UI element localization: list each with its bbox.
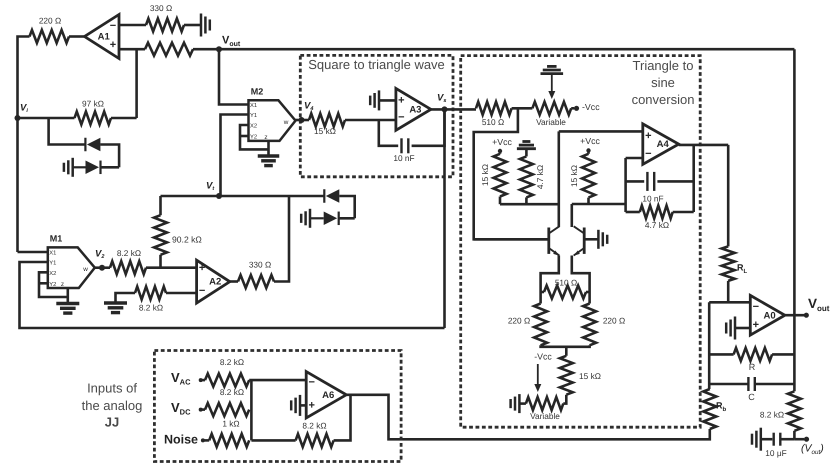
wire Vt down branch [159,196,162,215]
label Noise [164,432,198,446]
wire cap tap [626,180,645,183]
label +Vcc 1 [492,137,512,147]
label Inputs of line1 [87,380,137,395]
wire 330ohm to ground [184,24,200,27]
label 15kohm R7 [480,164,490,186]
svg-text:15 kΩ: 15 kΩ [480,164,490,186]
wire R22 to A2 - [166,292,197,295]
resistor R7 15kohm vertical [494,154,507,197]
wire Rb bottom to A6 output run [346,395,710,440]
label Vout final [808,296,830,313]
svg-text:z: z [264,134,267,141]
wire A1 noninverting input to R3 [119,48,145,51]
wire Vi to 97k [18,117,75,120]
svg-text:−: − [199,285,205,297]
label 4.7kohm R8 [535,165,545,189]
resistor R3 (Vout to A1+) [145,43,193,56]
label 8.2kohm R22 [139,303,163,313]
label Vout [222,34,241,47]
svg-text:JJ: JJ [105,414,119,429]
svg-text:conversion: conversion [632,92,695,107]
multiplier M2 [249,100,296,141]
label 15kohm [314,126,336,136]
label 10nF [393,153,414,163]
svg-text:z: z [61,281,64,288]
wire feedback right vertical [692,145,695,212]
pin X2 of M1 [49,270,56,277]
label VDC [171,400,191,417]
title Square to triangle wave [308,57,445,72]
wire Vout down to M2 X1 [219,49,249,104]
ground at A6 + input [291,395,300,416]
resistor R13 15kohm vertical [560,356,573,395]
label M1 [50,233,63,243]
terminal (Vout) [804,437,809,442]
resistor RL [722,246,735,281]
resistor R11 220ohm left [534,304,547,346]
wire A1 inverting input to 330ohm [119,24,146,27]
svg-text:510 Ω: 510 Ω [555,278,577,288]
wire A0 output [785,314,804,317]
svg-text:8.2 kΩ: 8.2 kΩ [302,421,326,431]
svg-text:1 kΩ: 1 kΩ [222,418,239,428]
svg-text:A0: A0 [764,310,776,321]
wire D3 to corner [339,196,354,218]
wire R19 to output [334,395,351,441]
svg-text:Y1: Y1 [49,260,56,266]
transistor Q1 [549,226,560,255]
wire bridge right [586,291,590,294]
wire ground to D2 [73,166,86,168]
svg-text:Square to triangle wave: Square to triangle wave [308,57,445,72]
svg-text:+: + [753,319,759,331]
wire Q1 collector up [557,131,560,227]
resistor R21 90.2kohm vertical [154,215,167,255]
wire R8 to bus [525,197,528,204]
pin Y1 of M1 [49,260,56,266]
label RL [737,262,748,274]
wire bottom node to 10uF [781,438,794,441]
resistor R19 8.2kohm feedback [296,434,334,447]
svg-text:330 Ω: 330 Ω [249,260,271,270]
wire R20 to A2 + [146,266,197,269]
pin X2 of M2 [250,123,257,130]
svg-text:15 kΩ: 15 kΩ [314,126,336,136]
svg-text:8.2 kΩ: 8.2 kΩ [117,248,141,258]
wire feedback bottom to 4.7k [626,211,640,214]
svg-text:sine: sine [651,75,675,90]
ground at A1 inverting input [201,14,210,37]
wire M1 z to ground [67,288,70,303]
op-amp A0 [750,295,785,335]
label 10uF [765,448,786,458]
wire R9 to collector row [587,198,590,204]
label -Vcc [582,102,600,112]
diode D1 [85,138,100,152]
inverted ground above 4.7k [517,142,536,149]
svg-text:w: w [82,266,88,273]
wire bus top to A6 - [249,379,306,382]
svg-text:R: R [749,362,756,372]
node V4 [299,117,305,123]
terminal -Vcc [574,106,579,111]
label 15kohm R13 [579,371,601,381]
svg-text:−: − [753,301,759,313]
svg-text:97 kΩ: 97 kΩ [82,99,104,109]
svg-text:15 kΩ: 15 kΩ [579,371,601,381]
op-amp A6 [306,372,346,418]
wire D1 to corner [100,145,119,168]
label VAC [171,370,191,387]
node Vt [216,193,222,199]
pin X1 of M2 [250,103,257,109]
resistor R16 8.2kohm [205,374,249,387]
terminal +Vcc 2 [586,148,590,152]
label C [748,392,755,402]
wire VDC to R17 [201,408,205,411]
node Vs (triangle out) [442,106,448,112]
svg-text:Triangle to: Triangle to [633,58,694,73]
svg-text:Noise: Noise [164,432,198,446]
wire C row left [709,383,748,386]
wire cap to output [412,109,445,145]
svg-text:+: + [110,39,116,51]
wire 10uF to ground [762,438,773,441]
label 8.2kohm R20 [117,248,141,258]
svg-text:+: + [398,94,404,106]
label 330ohm [150,3,172,13]
resistor R14 4.7kohm [640,206,673,219]
svg-text:8.2 kΩ: 8.2 kΩ [760,410,784,420]
svg-text:Y2: Y2 [49,281,56,288]
dashed box JJ inputs [154,351,401,462]
svg-text:8.2 kΩ: 8.2 kΩ [139,303,163,313]
wire A2 output [230,280,238,283]
op-amp A2 [197,260,230,303]
svg-text:w: w [283,119,289,126]
svg-text:4.7 kΩ: 4.7 kΩ [645,220,669,230]
node Vout (square wave) [216,46,222,52]
wire bridge bottom [541,345,590,347]
ground at 10uF [752,428,761,451]
wire A0 node left vertical [708,302,711,389]
label Variable P1 [536,117,566,127]
label 8.2kohm R17 [220,387,244,397]
resistor R feedback [734,348,773,361]
svg-text:−: − [308,376,314,388]
transistor Q2 [573,226,584,255]
title line2 [651,75,675,90]
wire A4 feedback left vertical [624,158,627,212]
node Vi [15,115,21,121]
pin z of M1 [61,281,64,288]
svg-text:+: + [199,262,205,274]
svg-text:M1: M1 [50,233,63,243]
terminal VDC [199,408,203,412]
resistor R9 15kohm vertical [582,154,595,198]
wire R7 to bus [499,197,502,205]
label 510ohm [482,117,504,127]
wire bus bottom to feedback resistor [251,439,295,442]
wire Q2 collector up [570,204,573,227]
diode D3 [324,189,339,203]
svg-text:M2: M2 [251,86,264,96]
wire +Vcc2 to R9 [587,151,590,154]
svg-text:A4: A4 [657,139,670,150]
svg-text:+: + [308,399,314,411]
label Vt [206,181,215,193]
wire R12 top [588,292,591,304]
svg-text:C: C [748,392,755,402]
wire Vout top rail to right edge [219,48,794,51]
wire C to right rail [755,383,794,386]
wire pot to -Vcc terminal [571,107,574,110]
label 90.2kohm [172,234,202,244]
wire Q2 base to ground [585,238,598,241]
wire V4 to 15k [296,119,310,122]
wire VAC to R16 [201,379,205,382]
resistor R8 4.7kohm vertical [520,156,533,197]
svg-text:15 kΩ: 15 kΩ [569,165,579,187]
resistor R23 330ohm [238,275,274,288]
svg-text:Inputs of: Inputs of [87,380,137,395]
wire 97k to A1+ branch [111,117,137,120]
wire right rail down [793,315,796,391]
label 15kohm R9 [569,165,579,187]
resistor R20 8.2kohm [110,261,146,274]
terminal Vout [804,313,809,318]
ground of M1 [56,304,79,314]
wire ground to A3 + [379,99,396,102]
svg-text:220 Ω: 220 Ω [39,16,61,26]
wire center to 15k [565,347,568,356]
svg-text:4.7 kΩ: 4.7 kΩ [535,165,545,189]
svg-text:10 nF: 10 nF [642,194,663,204]
capacitor C2 10nF [647,172,654,191]
pin Y1 of M2 [250,113,257,119]
resistor R6 510ohm [476,102,512,115]
resistor R18 1kohm [209,434,249,447]
stub Y2 of M1 [39,282,48,285]
wire Vi down to M1 X1 [16,118,19,252]
label 220ohm left [508,316,530,326]
label Vs [437,93,446,105]
svg-text:220 Ω: 220 Ω [603,316,625,326]
wire Q1 base [474,238,548,241]
capacitor C3 10uF [774,433,781,446]
resistor R10 510ohm bridge [544,286,586,299]
pin w of M1 [82,266,88,273]
pin Y2 of M1 [49,281,56,288]
bracket X2-Y2 of M2 [240,125,269,149]
label +Vcc 2 [580,136,600,146]
wire M1 w to V2 [95,266,110,269]
label 8.2kohm R16 [220,357,244,367]
potentiometer P2 variable [526,397,563,410]
wire M2 z to ground [267,141,270,156]
svg-text:-Vcc: -Vcc [582,102,600,112]
wire right rail down to A0 output [793,49,796,315]
wire Q2 collector row to A4 feedback node [572,203,626,206]
wire A4 output down to RL [727,145,730,247]
label 4.7kohm R14 [645,220,669,230]
ground at A2 - branch [104,303,127,313]
label M2 [251,86,264,96]
multiplier M1 [48,247,95,288]
wire cap right [657,180,693,183]
svg-text:X1: X1 [49,250,56,256]
resistor R12 220ohm right [583,304,596,346]
svg-text:+Vcc: +Vcc [492,137,512,147]
ground at A3 + input [370,90,379,110]
wire ground to P2 [519,402,526,405]
wire A1 output to node Vi (left vertical) [18,37,30,119]
wire feedback R row left [709,353,733,356]
wire down to diode D1 [49,118,85,145]
wire M1 Y1 to bottom rail [20,262,445,328]
terminal VAC [199,378,203,382]
wire 510 to potentiometer [512,107,533,110]
junction wire down to 97k [135,49,138,118]
resistor Rb [703,389,716,429]
wire M1 X1 stub [18,251,48,254]
svg-text:−: − [110,20,116,32]
svg-text:X2: X2 [49,270,56,277]
ground at diode D4 [301,209,310,228]
ground at diode D2 [64,158,73,177]
wire R23 up to diode row [274,196,289,282]
capacitor C feedback [748,377,754,391]
svg-text:Y1: Y1 [250,113,257,119]
pin z of M2 [264,134,267,141]
wire bottom rail up to Vs [443,109,446,328]
svg-text:8.2 kΩ: 8.2 kΩ [220,387,244,397]
svg-text:Y2: Y2 [250,134,257,141]
label 8.2kohm R15 [760,410,784,420]
svg-text:A6: A6 [322,390,334,401]
title line3 [632,92,695,107]
svg-text:Variable: Variable [536,117,566,127]
wire bottom node to terminal [794,438,804,441]
label 8.2kohm R19 [302,421,326,431]
label 97kohm [82,99,104,109]
label -Vcc 2 [534,352,552,362]
diode D2 [86,161,101,175]
label Rb [716,400,727,412]
wire inv ground to 4.7k [525,149,528,157]
wire A4 output [679,144,729,147]
wire 4.7k right [673,211,694,214]
pin X1 of M1 [49,250,56,256]
inverted ground above P1 [541,66,564,73]
wire 8.2k to bottom node [793,431,796,439]
svg-text:8.2 kΩ: 8.2 kΩ [220,357,244,367]
svg-text:330 Ω: 330 Ω [150,3,172,13]
wire R13 to P2 [563,395,566,404]
resistor R15 8.2kohm vertical [788,391,801,431]
op-amp A4 [643,124,679,164]
wire Vt row [161,195,325,198]
wire ground to D4 [310,217,324,219]
label V2 [95,249,104,261]
label 10nF C2 [642,194,663,204]
wire 220ohm to A1 output apex [69,35,85,38]
wiper arrow of P2 [534,364,541,392]
svg-text:the analog: the analog [82,398,143,413]
svg-text:X2: X2 [250,123,257,130]
wire Q1 emitter down [541,256,559,293]
wire A4 inverting input [626,157,643,160]
diode D4 [324,212,339,226]
potentiometer P1 variable [532,102,571,115]
bus wire to Q1 collector [500,203,559,206]
svg-text:−: − [398,112,404,124]
label 1kohm R18 [222,418,239,428]
label Variable P2 [530,411,560,421]
ground of M2 [258,156,280,166]
svg-text:−: − [645,148,651,160]
op-amp A1 [85,15,120,59]
resistor R22 8.2kohm [135,287,166,300]
resistor R2 330ohm [146,19,184,32]
node V2 [99,265,105,271]
svg-text:A1: A1 [98,32,111,43]
wire R3 to node Vout [193,48,219,51]
ground at P2 [511,394,520,413]
op-amp A3 [396,88,431,130]
wire ground to A6 + [300,404,306,407]
pin w of M2 [283,119,289,126]
ground at A0 + input [726,317,735,340]
svg-text:-Vcc: -Vcc [534,352,552,362]
dashed box square-to-triangle [300,55,453,176]
wire A0 inverting node row [709,301,750,304]
wire M2 Y1 to node Vt [221,115,249,197]
summing bus vertical [250,380,253,440]
capacitor C1 10nF [402,138,409,153]
terminal Noise [201,438,205,442]
resistor R4 97kohm [75,112,112,125]
label 220ohm right [603,316,625,326]
svg-text:10 μF: 10 μF [765,448,786,458]
bracket X2-Y2 of M1 [39,272,68,297]
svg-text:A3: A3 [409,104,421,115]
svg-text:220 Ω: 220 Ω [508,316,530,326]
pin Y2 of M2 [250,134,257,141]
wire A3 output [431,108,476,111]
wire Q2 emitter down [572,256,590,293]
label V4 [304,101,313,113]
svg-text:A2: A2 [209,277,221,288]
wire 15k to A3 inverting input [345,119,396,122]
wire D2 to corner [101,166,120,169]
label (Vout) [801,443,824,457]
title Triangle to sine line1 [633,58,694,73]
resistor R1 220ohm [30,30,70,43]
ground at Q2 base [598,230,607,249]
wire A4 + input to Q1 collector [559,130,643,133]
svg-text:90.2 kΩ: 90.2 kΩ [172,234,202,244]
wire feedback tap down [379,120,398,146]
wire R21 to A2 + row [159,255,162,268]
label R [749,362,756,372]
svg-text:X1: X1 [250,103,257,109]
svg-text:+Vcc: +Vcc [580,136,600,146]
wire Noise to R18 [203,439,209,442]
svg-text:510 Ω: 510 Ω [482,117,504,127]
stub Y2 of M2 [240,135,249,138]
label line2 the analog [82,398,143,413]
